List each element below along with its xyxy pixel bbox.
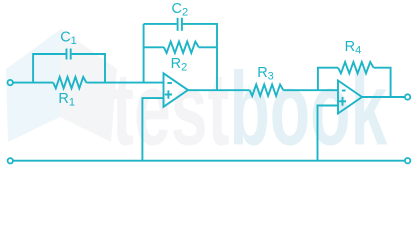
ground terminal left bbox=[8, 158, 13, 163]
capacitor C2 bbox=[177, 18, 179, 31]
wire U2 non-inverting input to ground rail bbox=[318, 106, 339, 161]
svg-text:testbook: testbook bbox=[112, 51, 388, 167]
circuit schematic: two-stage op-amp filter bbox=[0, 0, 418, 169]
wire R2 branch left bbox=[144, 46, 164, 48]
wire R3 to op-amp U2 inverting input bbox=[283, 89, 338, 91]
wire C1 right branch bbox=[72, 54, 105, 83]
wire U2 output bbox=[362, 96, 405, 98]
wire R1 to op-amp U1 inverting input bbox=[86, 82, 163, 84]
wire R4 branch left vertical bbox=[318, 68, 338, 91]
wire U1 output to R3 bbox=[188, 89, 250, 91]
wire feedback left vertical (U1 inverting node to C2/R2) bbox=[143, 24, 145, 83]
resistor R4 bbox=[338, 62, 374, 73]
ground rail wire bbox=[14, 160, 405, 162]
wire input to R1 bbox=[13, 82, 53, 84]
U2 minus symbol bbox=[342, 90, 346, 92]
capacitor C1 bbox=[66, 49, 68, 60]
U1 plus symbol bbox=[165, 90, 172, 98]
ground terminal right bbox=[405, 158, 410, 163]
wire U1 non-inverting input to ground rail bbox=[142, 98, 163, 161]
wire R4 branch right vertical bbox=[374, 68, 391, 97]
input terminal (top-left) bbox=[8, 80, 13, 85]
U2 plus symbol bbox=[339, 97, 346, 106]
wire C1 left branch bbox=[33, 54, 66, 83]
U1 minus symbol bbox=[167, 82, 172, 84]
op-amp U1 bbox=[164, 73, 189, 107]
resistor R2 bbox=[164, 42, 199, 53]
output terminal (right) bbox=[405, 94, 410, 99]
wire C2 top branch left bbox=[144, 23, 177, 25]
resistor R3 bbox=[250, 85, 284, 96]
wire R2 branch right bbox=[199, 46, 217, 48]
op-amp U2 bbox=[338, 81, 362, 114]
watermark logo house left half bbox=[6, 29, 61, 142]
wire C2 top branch right bbox=[183, 24, 217, 90]
resistor R1 bbox=[53, 77, 86, 88]
watermark logo house right half bbox=[60, 29, 117, 142]
